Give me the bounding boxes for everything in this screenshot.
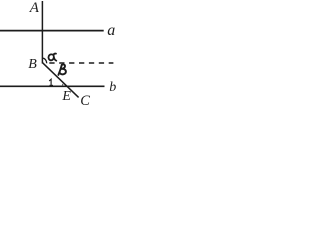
angle arc at E <box>62 83 63 86</box>
svg-text:C: C <box>80 93 90 107</box>
label 1 <box>49 79 53 85</box>
ray BA (vertical line) <box>41 1 43 64</box>
angle arc at B <box>43 58 47 63</box>
svg-text:A: A <box>29 0 40 16</box>
dashed ray from B <box>49 62 113 64</box>
transversal B-E-C <box>43 63 79 98</box>
svg-text:b: b <box>109 80 116 95</box>
line a <box>0 30 104 32</box>
svg-text:B: B <box>28 57 37 72</box>
svg-text:a: a <box>107 22 115 39</box>
svg-text:E: E <box>61 89 71 104</box>
label alpha (hand-drawn bold) <box>49 54 57 61</box>
label beta (hand-drawn bold) <box>58 64 66 74</box>
line b <box>0 85 105 87</box>
